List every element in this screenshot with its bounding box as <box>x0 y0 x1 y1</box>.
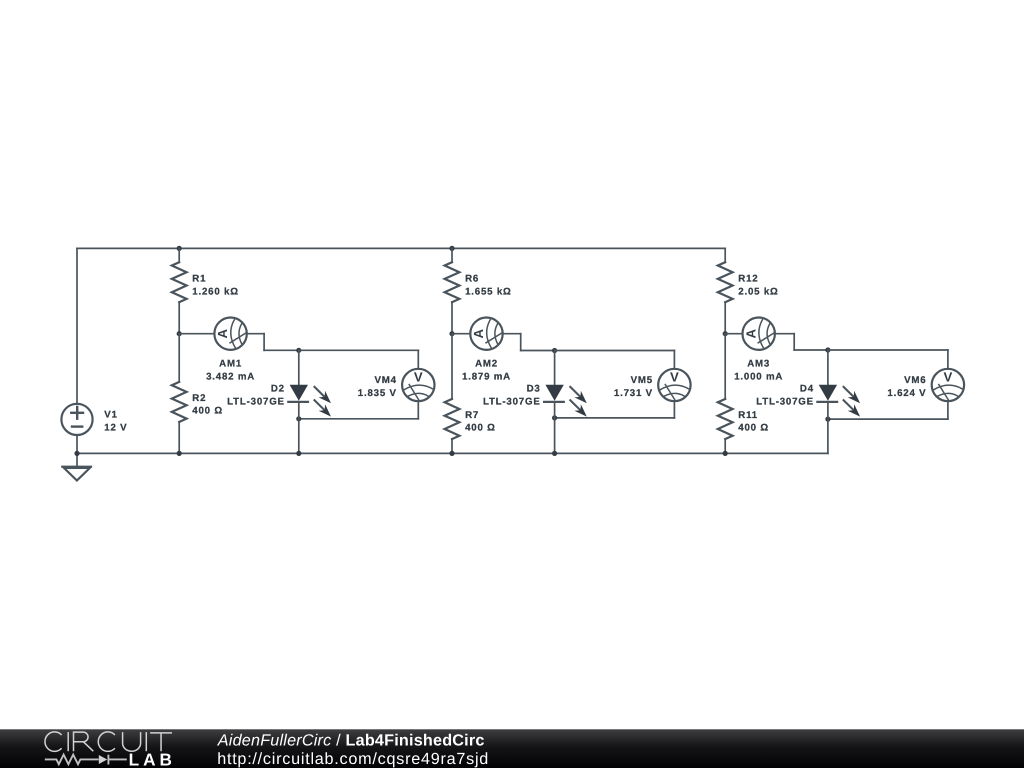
svg-text:D2: D2 <box>271 384 285 395</box>
LED D4 LTL-307GE <box>827 350 829 385</box>
svg-text:V: V <box>670 370 679 385</box>
svg-text:VM4: VM4 <box>374 375 396 386</box>
svg-text:LTL-307GE: LTL-307GE <box>756 396 814 407</box>
svg-text:3.482 mA: 3.482 mA <box>206 372 255 383</box>
wire AM2 to D3 <box>503 333 521 335</box>
svg-text:http://circuitlab.com/cqsre49r: http://circuitlab.com/cqsre49ra7sjd <box>217 750 489 768</box>
CircuitLab logo text CIRCUIT (custom thin letters) <box>45 732 172 752</box>
svg-text:A: A <box>215 328 230 338</box>
LED D3 light arrows <box>570 387 580 397</box>
svg-text:A: A <box>743 328 758 338</box>
LED D4 light arrows <box>844 387 854 397</box>
node D4 anode junction <box>825 347 830 352</box>
svg-text:AM1: AM1 <box>219 359 242 370</box>
svg-text:V: V <box>944 370 953 385</box>
svg-text:12 V: 12 V <box>104 422 127 433</box>
svg-text:400 Ω: 400 Ω <box>465 423 496 434</box>
svg-text:1.000 mA: 1.000 mA <box>734 372 783 383</box>
node D2 bottom junction <box>296 451 301 456</box>
svg-text:R12: R12 <box>738 273 758 284</box>
svg-text:1.835 V: 1.835 V <box>358 388 397 399</box>
svg-text:VM6: VM6 <box>904 375 926 386</box>
svg-text:VM5: VM5 <box>631 375 653 386</box>
svg-text:1.655 kΩ: 1.655 kΩ <box>465 287 512 298</box>
node AM3 junction <box>723 331 728 336</box>
ammeter AM3 <box>725 333 742 335</box>
svg-text:400 Ω: 400 Ω <box>192 406 223 417</box>
node AM2 junction <box>449 331 454 336</box>
ammeter AM2 <box>452 333 470 335</box>
ground <box>76 453 78 466</box>
wire top rail <box>77 247 725 249</box>
svg-text:R2: R2 <box>192 393 206 404</box>
svg-text:LTL-307GE: LTL-307GE <box>483 396 541 407</box>
ammeter AM1 <box>179 333 214 335</box>
svg-text:A: A <box>471 328 486 338</box>
svg-text:AM3: AM3 <box>747 359 770 370</box>
node D2 anode junction <box>296 348 301 353</box>
svg-text:LTL-307GE: LTL-307GE <box>227 396 285 407</box>
svg-text:AM2: AM2 <box>475 359 498 370</box>
node D3 anode junction <box>552 348 557 353</box>
node D3 cathode junction <box>552 415 557 420</box>
node R7 bottom junction <box>449 451 454 456</box>
wire left rail (V1 top lead) <box>76 248 78 403</box>
voltmeter VM5 <box>658 369 690 401</box>
svg-text:LAB: LAB <box>129 749 176 768</box>
svg-text:R6: R6 <box>465 273 479 284</box>
svg-text:AidenFullerCirc / Lab4Finished: AidenFullerCirc / Lab4FinishedCirc <box>217 731 485 749</box>
resistor R2 400 Ω <box>178 334 180 382</box>
wire D4 node to VM6 <box>828 349 948 351</box>
svg-text:R7: R7 <box>465 410 479 421</box>
resistor R7 400 Ω <box>451 334 453 399</box>
resistor R1 1.260 kΩ <box>178 248 180 262</box>
LED D2 light arrows <box>315 387 325 397</box>
svg-text:1.731 V: 1.731 V <box>614 388 653 399</box>
svg-text:400 Ω: 400 Ω <box>738 423 769 434</box>
node R1 top junction <box>177 246 182 251</box>
CircuitLab logo doodle (resistor + diode) <box>45 755 127 765</box>
voltage source V1 <box>61 404 92 435</box>
voltmeter VM4 <box>402 369 434 401</box>
wire AM1 to D2 <box>247 333 264 335</box>
voltmeter VM6 <box>932 369 964 401</box>
svg-text:1.879 mA: 1.879 mA <box>462 372 511 383</box>
LED D2 LTL-307GE <box>298 350 300 385</box>
node D4 cathode junction <box>825 417 830 422</box>
resistor R11 400 Ω <box>724 334 726 399</box>
svg-text:2.05 kΩ: 2.05 kΩ <box>738 287 778 298</box>
svg-text:R11: R11 <box>738 410 758 421</box>
wire VM6 to D4 cathode node <box>947 401 949 419</box>
svg-text:1.624 V: 1.624 V <box>887 388 926 399</box>
node D2 cathode junction <box>296 416 301 421</box>
wire V1 bottom lead <box>76 435 78 453</box>
node R11 bottom junction <box>723 451 728 456</box>
wire VM4 to D2 cathode node <box>417 401 419 419</box>
wire VM5 to D3 cathode node <box>673 401 675 418</box>
node R2 bottom junction <box>177 451 182 456</box>
node R6 top junction <box>449 246 454 251</box>
resistor R6 1.655 kΩ <box>451 248 453 262</box>
node AM1 junction <box>177 331 182 336</box>
wire D2 node to VM4 <box>299 349 419 351</box>
svg-text:V: V <box>414 370 423 385</box>
wire D3 node to VM5 <box>555 350 675 352</box>
wire AM3 to D4 <box>775 333 794 335</box>
svg-text:1.260 kΩ: 1.260 kΩ <box>192 287 239 298</box>
svg-text:D3: D3 <box>527 384 541 395</box>
node D3 bottom junction <box>552 451 557 456</box>
resistor R12 2.05 kΩ <box>724 248 726 262</box>
svg-text:V1: V1 <box>104 410 117 421</box>
svg-text:D4: D4 <box>800 384 814 395</box>
LED D3 LTL-307GE <box>554 351 556 385</box>
svg-text:R1: R1 <box>192 273 206 284</box>
wire bottom rail <box>77 452 828 454</box>
